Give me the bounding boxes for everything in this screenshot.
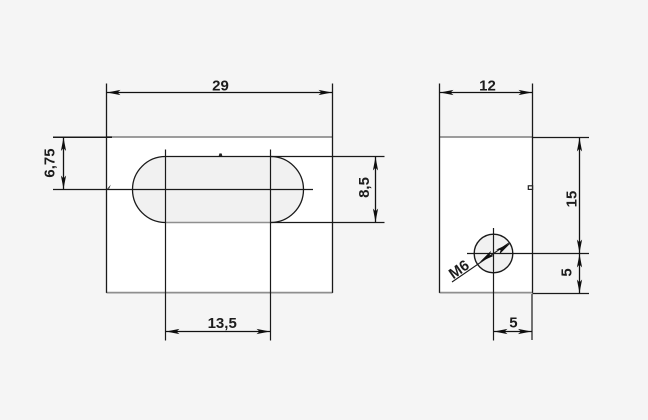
dimension 12 right arrow bbox=[519, 90, 533, 95]
front view right edge with 29-dim extension bbox=[332, 84, 334, 293]
tick artifact on slot top edge bbox=[219, 153, 223, 156]
slot top edge plus 8.5-dim top extension bbox=[166, 156, 385, 158]
front view left edge with 29-dim extension bbox=[106, 84, 108, 293]
side view left edge with 12-dim extension bbox=[439, 84, 441, 293]
side view body bbox=[440, 137, 533, 293]
slot right arc bbox=[271, 157, 304, 223]
dimension 12 line bbox=[440, 92, 533, 94]
front view body bbox=[107, 137, 333, 293]
5-dim bottom right extension line bbox=[531, 294, 533, 340]
side view right edge with 12-dim extension bbox=[532, 84, 534, 293]
dimension 13,5 left arrow bbox=[166, 329, 180, 334]
dimension 5 bottom line bbox=[494, 331, 533, 333]
M6 leader line bbox=[452, 243, 509, 282]
dimension 13,5 line bbox=[166, 331, 271, 333]
dimension 5 bottom right arrow bbox=[518, 329, 532, 334]
M6 leader outer arrow bbox=[496, 241, 512, 255]
small mark on side view right edge bbox=[528, 186, 532, 190]
svg-text:6,75: 6,75 bbox=[42, 148, 59, 177]
dimension 5 right bottom arrow bbox=[577, 280, 582, 294]
dimension 8,5 bottom arrow bbox=[373, 209, 378, 223]
slot left arc bbox=[133, 157, 166, 223]
6.75 upper extension bbox=[53, 136, 112, 138]
svg-text:5: 5 bbox=[558, 268, 575, 276]
15-dim top extension bbox=[533, 137, 590, 139]
slot fill bbox=[133, 157, 304, 223]
dimension 15 line bbox=[579, 138, 581, 254]
M6 leader inner arrow bbox=[478, 251, 494, 265]
svg-text:8,5: 8,5 bbox=[356, 177, 373, 198]
slot right center extension (13.5 dim) bbox=[270, 150, 272, 341]
dimension 6,75 top arrow bbox=[61, 138, 66, 152]
slot horizontal centerline / 6.75 lower extension bbox=[53, 189, 313, 191]
side view bottom edge bbox=[440, 292, 533, 294]
tick artifact at centerline-edge crossing bbox=[107, 185, 111, 189]
dimension 6,75 line bbox=[63, 137, 65, 190]
hole circle M6 bbox=[474, 234, 513, 273]
dimension 12 left arrow bbox=[440, 90, 454, 95]
svg-text:15: 15 bbox=[564, 191, 581, 208]
dimension 8,5 top arrow bbox=[373, 157, 378, 171]
dimension 5 right line bbox=[579, 254, 581, 294]
dimension 13,5 right arrow bbox=[257, 329, 271, 334]
dimension 29 right arrow bbox=[319, 90, 333, 95]
hole horizontal centerline bbox=[467, 253, 589, 255]
dimension 6,75 bottom arrow bbox=[61, 176, 66, 190]
slot left center extension (13.5 dim) bbox=[165, 150, 167, 341]
svg-text:12: 12 bbox=[479, 78, 496, 95]
svg-text:13,5: 13,5 bbox=[208, 315, 237, 332]
dimension 8,5 line bbox=[375, 157, 377, 223]
side view top edge bbox=[440, 136, 533, 138]
slot bottom edge (gray) bbox=[166, 222, 271, 224]
front view top edge bbox=[107, 136, 333, 138]
front view bottom edge bbox=[107, 292, 333, 294]
svg-text:29: 29 bbox=[212, 78, 229, 95]
8.5-dim bottom extension bbox=[271, 222, 385, 224]
dimension 5 bottom left arrow bbox=[494, 329, 508, 334]
dimension 15 bottom arrow bbox=[577, 240, 582, 254]
hole vertical centerline bbox=[493, 228, 495, 341]
dimension 29 line bbox=[107, 92, 333, 94]
dimension 5 right top arrow bbox=[577, 254, 582, 268]
dimension 15 top arrow bbox=[577, 138, 582, 152]
5-dim bottom extension (right side) bbox=[533, 293, 590, 295]
dimension 29 left arrow bbox=[107, 90, 121, 95]
svg-text:5: 5 bbox=[509, 315, 517, 332]
